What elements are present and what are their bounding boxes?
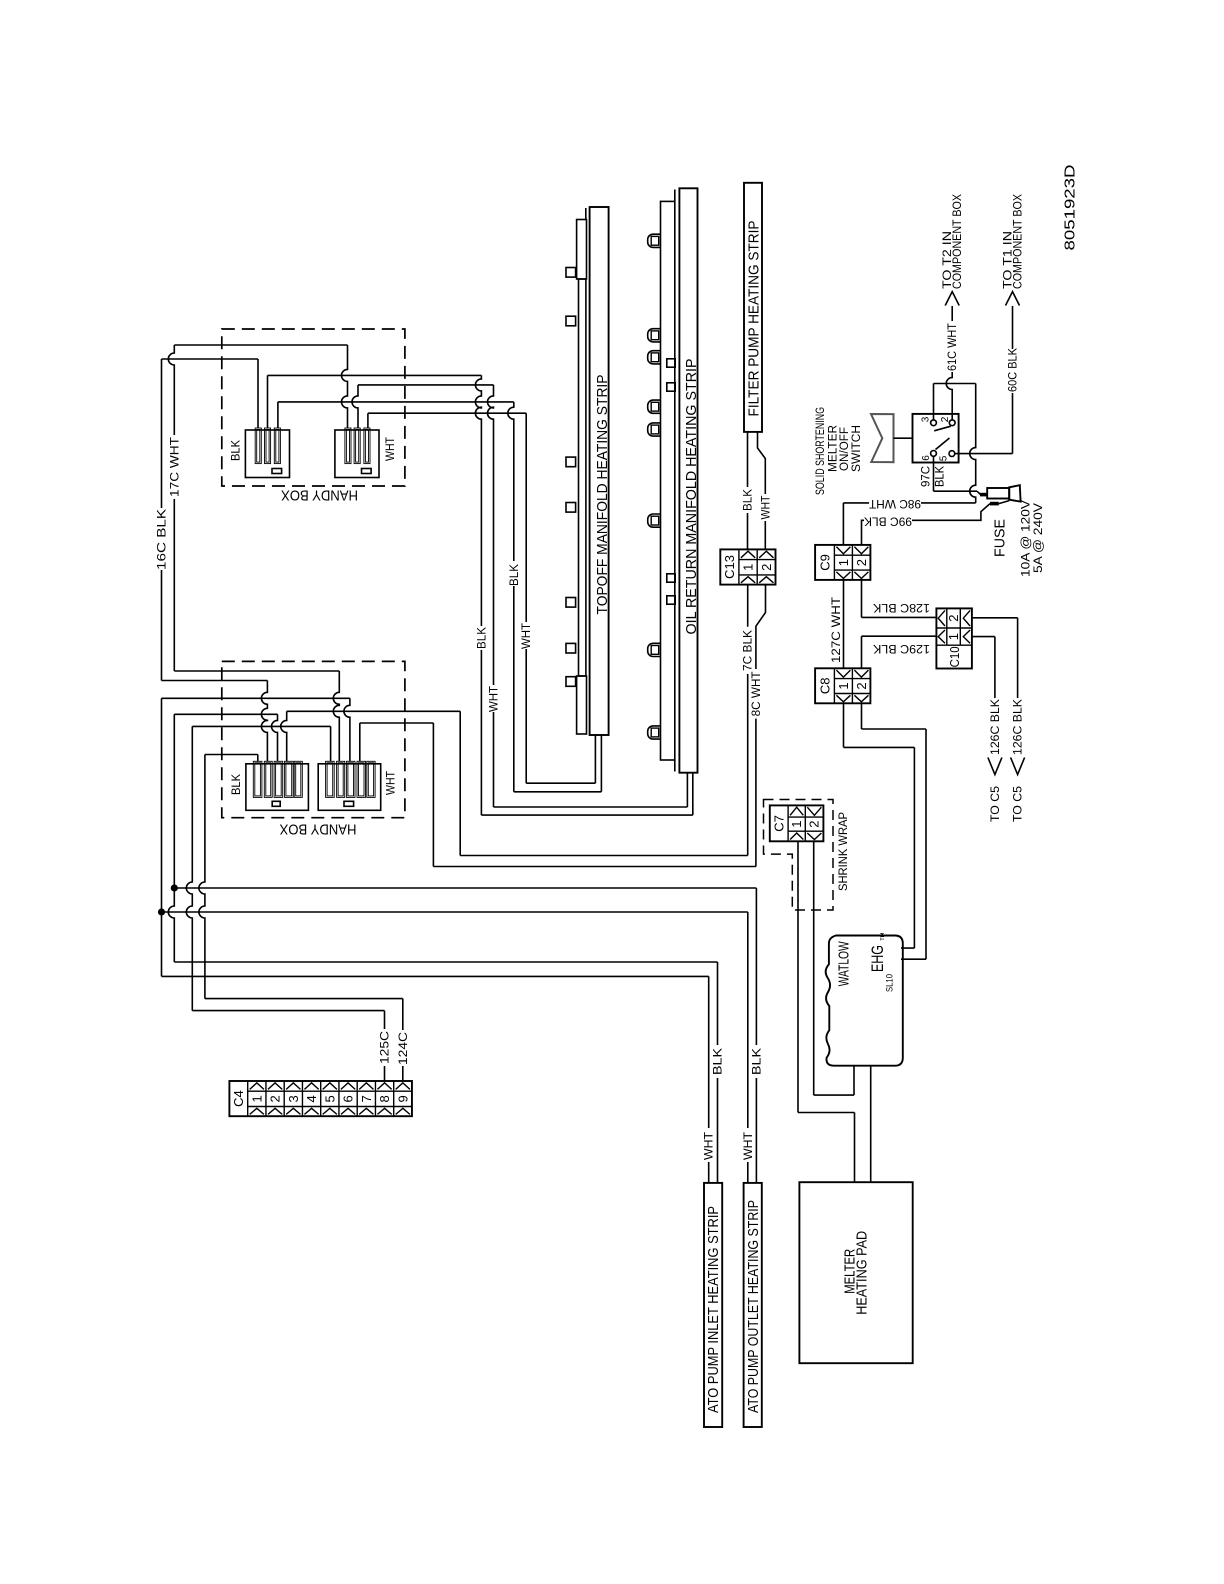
wire FILTER PUMP strip WHT to C13 pin 2 (758, 432, 766, 550)
wire C7 pin 1 to MELTER HEATING PAD (798, 841, 855, 1182)
svg-text:2: 2 (940, 416, 951, 422)
dashed enclosure HANDY BOX (upper) (222, 329, 405, 486)
wire box2 BLK slot3 to left rail (174, 714, 277, 761)
svg-text:8: 8 (377, 1095, 392, 1102)
svg-text:BLK: BLK (231, 774, 243, 795)
svg-text:125C: 125C (380, 1031, 392, 1064)
wire 129C BLK C8 pin 2 to C10 pin 1 (862, 636, 937, 668)
svg-text:7C BLK: 7C BLK (743, 630, 755, 671)
svg-text:WHT: WHT (521, 623, 533, 649)
svg-text:3: 3 (920, 416, 931, 422)
svg-text:60C BLK: 60C BLK (1008, 348, 1020, 392)
svg-text:2: 2 (854, 682, 869, 689)
connector C9 (815, 545, 870, 580)
wire 61C WHT switch pin 2 to T2 (arrow) (945, 292, 959, 420)
svg-text:126C BLK: 126C BLK (990, 699, 1002, 755)
svg-text:ON/OFF: ON/OFF (839, 427, 851, 471)
svg-text:C4: C4 (231, 1090, 246, 1107)
connector block WHT (handy box 2) (318, 761, 381, 810)
connector C10 (936, 608, 972, 668)
svg-text:7: 7 (359, 1095, 374, 1102)
component MELTER HEATING PAD (799, 1182, 912, 1363)
svg-text:1: 1 (741, 564, 756, 571)
svg-text:WATLOW: WATLOW (835, 941, 852, 987)
svg-text:BLK: BLK (476, 627, 488, 649)
wire left rail to ATO PUMP INLET strip WHT lead (162, 698, 709, 1183)
connector C4 (229, 1081, 412, 1116)
wire BLK box1 slot3 to TOPOFF strip (right lead) (278, 402, 602, 792)
svg-text:BLK: BLK (509, 564, 521, 586)
svg-text:97C: 97C (921, 466, 933, 487)
connector C13 (720, 549, 775, 584)
svg-text:1: 1 (789, 821, 804, 828)
svg-text:1: 1 (249, 1095, 264, 1102)
svg-text:128C BLK: 128C BLK (873, 601, 930, 613)
svg-text:™: ™ (879, 932, 890, 942)
svg-text:BLK: BLK (935, 466, 947, 487)
svg-text:WHT: WHT (760, 496, 772, 520)
wire C7 pin 2 to EHG thermostat (814, 841, 854, 1095)
svg-text:6: 6 (921, 455, 932, 461)
svg-text:COMPONENT BOX: COMPONENT BOX (952, 194, 964, 289)
wire box2 BLK slot1 to C4 pin 9 (124C) (199, 755, 403, 1082)
wire 60C BLK switch pin 5 to T1 (arrow) (955, 292, 1020, 454)
svg-text:HEATING PAD: HEATING PAD (854, 1231, 871, 1315)
svg-text:9: 9 (395, 1095, 410, 1102)
wire left rail to ATO PUMP INLET strip BLK lead (168, 714, 717, 1183)
svg-text:8C WHT: 8C WHT (751, 671, 763, 716)
wire 17C WHT (rail, box1 WHT slot1, box2 WHT slot2) (168, 345, 347, 761)
svg-text:SOLID SHORTENING: SOLID SHORTENING (815, 407, 827, 495)
svg-text:TO C5: TO C5 (990, 786, 1002, 822)
svg-text:5: 5 (322, 1095, 337, 1102)
svg-text:ATO PUMP INLET HEATING STR: ATO PUMP INLET HEATING STRIP (705, 1206, 722, 1413)
switch actuator symbol (871, 414, 913, 462)
svg-text:FUSE: FUSE (992, 519, 1009, 557)
wire box2 WHT slot4 to C13 pin 2 (8C WHT) (360, 584, 766, 866)
wire box2 WHT slot1 to C4 pin 8 (125C) (186, 726, 384, 1081)
svg-text:99C BLK: 99C BLK (864, 515, 912, 527)
svg-text:EHG: EHG (869, 945, 887, 972)
wire EHG thermostat to MELTER HEATING PAD (870, 1066, 872, 1183)
svg-text:1: 1 (946, 633, 961, 640)
svg-text:6: 6 (341, 1095, 356, 1102)
svg-text:SL10: SL10 (885, 974, 896, 992)
junction dot (upper) (171, 884, 178, 891)
svg-text:HANDY BOX: HANDY BOX (281, 487, 358, 504)
wire BLK box1 slot2 to OIL RETURN strip (right lead) (268, 375, 693, 815)
wire C8 pin 1 to EHG thermostat (844, 703, 915, 948)
svg-text:FILTER PUMP HEATING STRIP: FILTER PUMP HEATING STRIP (745, 221, 762, 417)
svg-text:3: 3 (286, 1095, 301, 1102)
svg-text:WHT: WHT (704, 1132, 716, 1160)
wire junction to ATO PUMP OUTLET strip BLK lead (174, 888, 756, 1183)
svg-text:4: 4 (304, 1095, 319, 1102)
svg-text:TOPOFF MANIFOLD HEATING STR: TOPOFF MANIFOLD HEATING STRIP (594, 375, 611, 615)
wire switch pin 6 to fuse (934, 457, 981, 495)
connector block BLK (handy box 2) (246, 761, 309, 810)
svg-text:5: 5 (939, 455, 950, 461)
svg-text:1: 1 (836, 559, 851, 566)
component ATO PUMP INLET HEATING STRIP (704, 1183, 722, 1427)
junction dot (lower) (158, 908, 165, 915)
svg-text:COMPONENT BOX: COMPONENT BOX (1012, 194, 1024, 289)
svg-text:2: 2 (759, 564, 774, 571)
wire FILTER PUMP strip BLK to C13 pin 1 (747, 432, 749, 550)
svg-text:129C BLK: 129C BLK (873, 642, 930, 654)
svg-text:2: 2 (268, 1095, 283, 1102)
svg-text:WHT: WHT (489, 686, 501, 712)
svg-text:61C WHT: 61C WHT (947, 323, 959, 371)
svg-text:WHT: WHT (385, 437, 397, 461)
wire C8 pin 2 to EHG thermostat (862, 703, 927, 959)
connector C7 (770, 805, 824, 841)
svg-text:C10: C10 (947, 646, 962, 667)
connector C8 (815, 668, 870, 703)
svg-text:BLK: BLK (231, 440, 243, 461)
svg-text:8051923D: 8051923D (1062, 164, 1079, 250)
svg-text:SHRINK WRAP: SHRINK WRAP (838, 812, 850, 891)
dashed enclosure SHRINK WRAP (764, 800, 834, 911)
svg-text:124C: 124C (398, 1032, 410, 1065)
svg-text:MELTER: MELTER (827, 425, 839, 472)
wire WHT box1 slot3 to TOPOFF strip (left lead) (368, 413, 596, 783)
svg-text:HANDY BOX: HANDY BOX (280, 821, 357, 838)
wire 98C WHT switch pin 3 to C9 pin 1 (843, 384, 975, 545)
wire 126C BLK C10 pin 1 to C5 (arrow) (972, 637, 1002, 775)
component TOPOFF MANIFOLD HEATING STRIP (566, 207, 611, 735)
fuse (980, 485, 1021, 503)
svg-text:OIL RETURN MANIFOLD HEATING: OIL RETURN MANIFOLD HEATING STRIP (683, 359, 700, 635)
svg-text:1: 1 (836, 682, 851, 689)
svg-text:C7: C7 (772, 815, 787, 832)
svg-text:16C BLK: 16C BLK (157, 509, 169, 570)
switch SOLID SHORTENING MELTER ON/OFF (913, 414, 959, 463)
svg-text:126C BLK: 126C BLK (1013, 699, 1025, 755)
svg-text:10A @ 120V: 10A @ 120V (1021, 500, 1033, 577)
svg-text:98C WHT: 98C WHT (869, 497, 921, 509)
component ATO PUMP OUTLET HEATING STRIP (744, 1183, 763, 1427)
svg-text:BLK: BLK (713, 1048, 725, 1075)
wire 16C BLK (rail, box1 BLK slot1, box2 BLK slot2) (162, 359, 268, 761)
component OIL RETURN MANIFOLD HEATING STRIP (648, 188, 700, 772)
wire box2 WHT slot3 to left rail (162, 698, 350, 761)
svg-text:127C WHT: 127C WHT (831, 597, 843, 663)
dashed enclosure HANDY BOX (lower) (222, 661, 405, 817)
wire 127C WHT C9 pin 1 to C8 pin 1 (843, 580, 845, 668)
svg-text:C13: C13 (722, 555, 737, 579)
svg-text:2: 2 (806, 821, 821, 828)
svg-text:C8: C8 (817, 677, 832, 694)
svg-text:ATO PUMP OUTLET HEATING ST: ATO PUMP OUTLET HEATING STRIP (745, 1200, 762, 1413)
component WATLOW EHG SL10 thermostat (826, 932, 903, 1066)
svg-text:WHT: WHT (385, 771, 397, 795)
svg-text:WHT: WHT (743, 1132, 755, 1160)
svg-text:SWITCH: SWITCH (851, 425, 863, 472)
svg-text:2: 2 (946, 615, 961, 622)
svg-text:TO C5: TO C5 (1013, 786, 1025, 822)
wire box2 BLK slot4 to C13 pin 1 (7C BLK) (281, 584, 748, 855)
wire 99C BLK fuse to C9 pin 2 (862, 501, 1010, 545)
component FILTER PUMP HEATING STRIP (744, 183, 762, 432)
svg-text:17C WHT: 17C WHT (169, 437, 181, 497)
wire 128C BLK C9 pin 2 to C10 pin 2 (862, 580, 937, 618)
wire WHT box1 slot2 to OIL RETURN strip (left lead) (352, 385, 687, 807)
svg-text:5A @ 240V: 5A @ 240V (1033, 503, 1045, 573)
svg-text:BLK: BLK (751, 1048, 763, 1075)
svg-text:BLK: BLK (743, 489, 755, 511)
connector block BLK (handy box 1) (245, 428, 289, 478)
connector block WHT (handy box 1) (335, 428, 379, 478)
wire junction to ATO PUMP OUTLET strip WHT lead (162, 912, 748, 1183)
svg-text:C9: C9 (817, 554, 832, 571)
wire 126C BLK C10 pin 2 to C5 (arrow) (972, 618, 1025, 775)
svg-text:2: 2 (854, 559, 869, 566)
